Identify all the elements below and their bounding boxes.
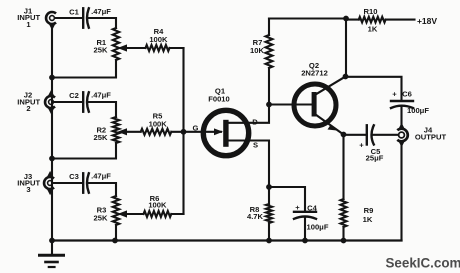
- svg-text:25K: 25K: [94, 46, 108, 55]
- svg-text:1K: 1K: [363, 215, 373, 224]
- capacitor C5 25uF: [367, 125, 374, 144]
- wire: emitter down through R9 to bus: [342, 135, 344, 241]
- svg-text:+: +: [359, 140, 364, 149]
- wire: drain D to vertical riser: [229, 105, 270, 123]
- wire: left ground column J1-J2-J3-ground: [51, 24, 53, 241]
- jack J2: [45, 90, 55, 114]
- svg-text:C3: C3: [69, 172, 79, 181]
- label R1 25K: [94, 38, 108, 55]
- resistor R9 1K: [341, 199, 347, 227]
- svg-text:SeekIC.com: SeekIC.com: [386, 255, 460, 270]
- wire: C6 to J4 top: [400, 108, 402, 128]
- svg-text:.47μF: .47μF: [91, 90, 111, 99]
- svg-text:R9: R9: [364, 206, 374, 215]
- wire: C5 to J4: [373, 134, 399, 136]
- svg-text:2N2712: 2N2712: [301, 69, 328, 78]
- wire: emitter to C5: [344, 134, 366, 136]
- svg-text:C4: C4: [307, 203, 317, 212]
- label R2 25K: [94, 126, 108, 143]
- node: junction dot C4 bus (305,240.5): [302, 238, 308, 244]
- resistor R5 100K: [126, 129, 184, 135]
- jack J4 output: [397, 123, 407, 147]
- label J2 INPUT 2: [17, 91, 40, 113]
- node: junction dot ground (52,240.5): [49, 238, 55, 244]
- wire: R3 bottom to ground bus: [115, 225, 117, 241]
- jack J3: [44, 171, 54, 195]
- svg-text:100μF: 100μF: [307, 222, 329, 231]
- svg-text:100K: 100K: [149, 119, 168, 128]
- wire: base lead to Q2: [269, 103, 311, 105]
- Q1 gate arrow: [214, 128, 223, 135]
- wire: J4 bottom down to bus corner: [400, 143, 402, 241]
- label Q1 F0010: [208, 87, 230, 104]
- label R9 1K: [363, 206, 374, 224]
- capacitor C4 100uF: [294, 212, 316, 219]
- label J1 INPUT 1: [17, 6, 40, 29]
- wire: C3 to R3 top corner: [88, 183, 116, 196]
- label + C6: [392, 89, 412, 98]
- resistor R4 100K: [126, 45, 184, 51]
- label R3 25K: [94, 206, 108, 223]
- resistor R6 100K: [126, 211, 184, 217]
- wire: J3 to C3: [53, 182, 82, 184]
- potentiometer R3 25K: [113, 196, 119, 225]
- Q2 emitter arrow: [328, 125, 338, 130]
- label R8 4.7K: [247, 205, 264, 221]
- wire: J2 to C2: [54, 101, 82, 103]
- node: emitter junction dot (343.5,134.5): [341, 132, 347, 138]
- svg-text:10K: 10K: [250, 46, 264, 55]
- svg-text:25μF: 25μF: [366, 153, 384, 162]
- svg-text:100K: 100K: [148, 201, 167, 210]
- wire: gate lead to Q1: [184, 131, 222, 133]
- potentiometer R1 25K: [113, 28, 119, 60]
- wire: ground bus bottom: [52, 239, 402, 241]
- label R6 100K: [148, 194, 167, 210]
- jack J1: [46, 12, 56, 30]
- wire: riser from drain node up through R7 to top rail: [268, 19, 270, 105]
- label R5 100K: [149, 112, 168, 129]
- svg-text:25K: 25K: [94, 133, 108, 142]
- wire: J1 to C1: [55, 17, 82, 19]
- wire: top rail: [269, 17, 346, 19]
- label R7 10K: [250, 38, 264, 55]
- capacitor C2 .47uF: [83, 92, 89, 111]
- resistor R7 10K: [266, 35, 273, 68]
- svg-text:C6: C6: [402, 90, 412, 99]
- svg-text:100μF: 100μF: [407, 106, 429, 115]
- svg-text:OUTPUT: OUTPUT: [415, 132, 447, 141]
- wiper arrow R2: [118, 128, 128, 135]
- svg-text:2: 2: [26, 104, 30, 113]
- node: source junction dot (269,187): [266, 184, 272, 190]
- svg-text:4.7K: 4.7K: [247, 212, 264, 221]
- svg-text:C1: C1: [69, 7, 79, 16]
- node: junction dot top rail (346,18.5): [343, 16, 349, 22]
- label R4 100K: [149, 27, 168, 44]
- potentiometer R2 25K: [113, 117, 119, 143]
- label R10 1K: [364, 7, 378, 33]
- capacitor C1 .47uF: [83, 8, 89, 27]
- resistor R10 1K: [346, 17, 415, 23]
- capacitor C3 .47uF: [83, 173, 89, 192]
- Q1 channel bar: [223, 120, 228, 147]
- wire: C1 to R1 top corner: [88, 18, 116, 28]
- svg-text:3: 3: [26, 185, 30, 194]
- svg-text:1K: 1K: [368, 24, 378, 33]
- svg-text:25K: 25K: [94, 213, 108, 222]
- label + C4: [295, 203, 317, 213]
- svg-text:R10: R10: [364, 7, 378, 16]
- svg-text:.47μF: .47μF: [91, 7, 111, 16]
- wire: C2 to R2 top corner: [88, 102, 116, 117]
- label + C5: [359, 140, 383, 162]
- node: junction dot at (116,240.5): [112, 238, 118, 244]
- node: junction dot R8 bus (269,240.5): [266, 238, 272, 244]
- svg-text:C2: C2: [69, 91, 79, 100]
- Q2 collector lead: [316, 77, 346, 95]
- wire: R2 bottom to jack column: [52, 143, 116, 159]
- wire: gate bus vertical R4-R5-R6: [182, 48, 184, 214]
- wire: collector riser to top rail: [345, 19, 347, 77]
- wire: C4 down to bus: [304, 218, 306, 241]
- svg-text:+: +: [295, 203, 300, 212]
- node: junction dot collector (346,76.5): [343, 74, 349, 80]
- label Q2 2N2712: [301, 61, 328, 78]
- node: junction dot at (52,158.5): [49, 156, 55, 162]
- Q2 base bar: [312, 92, 317, 117]
- Q2 emitter lead: [316, 115, 344, 135]
- node: junction dot R9 bus (343.5,240.5): [341, 238, 347, 244]
- wire: source node down through R8 to bus: [268, 187, 270, 241]
- wiper arrow R1: [118, 44, 128, 51]
- transistor Q2 2N2712 circle: [294, 84, 336, 126]
- label J4 OUTPUT: [415, 125, 447, 141]
- node: junction dot at (52,77.5): [49, 75, 55, 81]
- svg-text:+: +: [392, 89, 397, 98]
- svg-text:G: G: [193, 123, 199, 132]
- ground: [40, 241, 64, 268]
- resistor R8 4.7K: [266, 204, 272, 223]
- transistor Q1 FET circle: [203, 110, 248, 155]
- svg-text:S: S: [253, 140, 258, 149]
- svg-text:F0010: F0010: [208, 95, 230, 104]
- svg-text:+18V: +18V: [417, 16, 437, 26]
- wire: R1 bottom to jack column: [52, 60, 116, 78]
- capacitor C6 100uF: [391, 101, 413, 108]
- svg-text:.47μF: .47μF: [91, 171, 111, 180]
- wiper arrow R3: [118, 210, 128, 217]
- wire: collector node to C6 branch: [346, 77, 402, 101]
- svg-text:100K: 100K: [149, 35, 168, 44]
- wire: C4 branch horizontal: [269, 187, 305, 211]
- node: junction dot gate bus (183.5,131.8): [181, 129, 187, 135]
- node: junction dot base node (269,104.5): [266, 102, 272, 108]
- label J3 INPUT 3: [17, 172, 40, 194]
- wire: source S to down: [229, 141, 270, 188]
